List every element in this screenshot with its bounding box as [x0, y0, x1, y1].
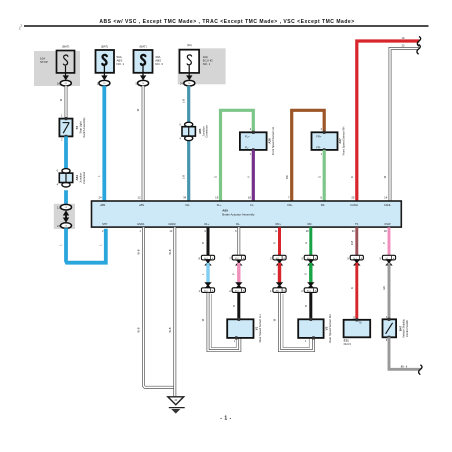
- svg-text:+BS: +BS: [139, 203, 144, 207]
- svg-text:Connector: Connector: [82, 171, 86, 184]
- wire RR+ white U to sensor: [280, 293, 314, 351]
- fuse F1 panel: [34, 51, 80, 86]
- header rule: [24, 25, 429, 27]
- arrow pair harness join: [63, 210, 69, 222]
- pin nub V2 bottom: [312, 336, 315, 339]
- pin nub A27 top: [323, 131, 326, 134]
- connector oval 21: [61, 223, 72, 229]
- svg-text:Connector: Connector: [205, 125, 209, 138]
- svg-text:B: B: [232, 305, 236, 307]
- wire CANL (W): [390, 49, 419, 202]
- svg-text:RL+: RL+: [204, 222, 209, 226]
- fuse F2 50A ABS NO.1: [96, 50, 115, 77]
- connector RR+ row2: [270, 288, 286, 293]
- pin nub S7 top: [65, 117, 68, 120]
- shield line RR: [283, 294, 309, 348]
- svg-text:Stop Light: Stop Light: [78, 121, 82, 133]
- ground symbol: [168, 397, 185, 414]
- svg-text:GR: GR: [382, 286, 386, 290]
- svg-text:NO. 1: NO. 1: [117, 62, 125, 66]
- svg-text:Junction: Junction: [201, 126, 205, 137]
- connector RL- row1: [232, 255, 245, 260]
- svg-text:CANL: CANL: [384, 203, 392, 207]
- stop light switch S7: [59, 119, 72, 137]
- header rule left break: [19, 24, 22, 30]
- wire RL+ upper: [207, 227, 210, 255]
- connector arrows CSW: [385, 259, 392, 265]
- svg-text:25: 25: [351, 195, 355, 199]
- connector RR- row2: [301, 288, 317, 293]
- svg-text:ABS <w/ VSC , Except TMC Made>: ABS <w/ VSC , Except TMC Made> , TRAC <E…: [99, 19, 354, 25]
- break symbol CSW: [419, 365, 422, 375]
- pin nub S7 bottom: [65, 135, 68, 138]
- svg-text:R-B: R-B: [350, 240, 354, 245]
- svg-text:A27: A27: [338, 138, 342, 144]
- svg-text:NO. 1: NO. 1: [203, 62, 211, 66]
- front speed sensor LH A26: [240, 132, 267, 150]
- connector arrows RL+ upper: [204, 259, 211, 265]
- connector arrows RL- lower: [235, 282, 242, 288]
- DLC3 connector E11: [344, 320, 371, 338]
- svg-text:B9 - 8: B9 - 8: [401, 365, 408, 368]
- svg-text:W-B: W-B: [137, 249, 141, 254]
- arrow below F3: [140, 75, 146, 80]
- svg-text:FL+: FL+: [245, 134, 250, 138]
- wire TS lower (R): [355, 263, 358, 320]
- svg-text:B: B: [304, 305, 308, 307]
- svg-text:TS: TS: [355, 222, 359, 226]
- svg-text:R: R: [350, 176, 354, 178]
- wire RL- middle: [237, 263, 240, 285]
- svg-text:STOP: STOP: [40, 60, 48, 64]
- wire FL+ to sensor (G): [221, 110, 254, 201]
- svg-text:NO. 3: NO. 3: [155, 62, 163, 66]
- svg-text:FL-: FL-: [250, 203, 254, 207]
- svg-text:W-B: W-B: [168, 249, 172, 254]
- svg-text:STP: STP: [102, 222, 107, 226]
- wire fuse F1 to stop light switch (W): [65, 86, 68, 119]
- svg-text:L-B: L-B: [182, 175, 186, 179]
- svg-text:24: 24: [180, 81, 184, 85]
- svg-text:14: 14: [384, 195, 388, 199]
- connector oval 1G below F3: [138, 80, 149, 86]
- wire TS upper (R-B): [355, 227, 358, 255]
- break symbol CANL: [417, 44, 420, 54]
- front speed sensor RH A27: [312, 132, 338, 150]
- wire STP U-shape (L): [66, 228, 106, 262]
- arrow below F2: [101, 75, 107, 80]
- pin nub A26 top: [252, 131, 255, 134]
- wire RR- upper: [309, 227, 312, 255]
- svg-text:Front Speed Sensor RH: Front Speed Sensor RH: [342, 127, 346, 156]
- svg-text:FR+: FR+: [316, 134, 322, 138]
- svg-text:(IG): (IG): [187, 43, 192, 47]
- fuse F3 30A ABS NO.3: [134, 50, 153, 77]
- svg-text:Rear Speed Sensor LH: Rear Speed Sensor LH: [258, 315, 262, 343]
- wire CSW upper (P): [388, 227, 391, 255]
- svg-text:12: 12: [137, 195, 141, 199]
- svg-text:W-B: W-B: [137, 327, 141, 332]
- svg-text:Brake Actuator Assembly: Brake Actuator Assembly: [222, 213, 255, 217]
- connector arrows RR- upper: [307, 259, 314, 265]
- connector RR- row1: [301, 255, 317, 260]
- svg-text:FL+: FL+: [217, 203, 222, 207]
- svg-text:TS: TS: [358, 322, 362, 325]
- svg-text:A64: A64: [75, 175, 79, 181]
- vehicle stability control switch B47: [383, 319, 397, 337]
- svg-text:B47: B47: [398, 325, 402, 331]
- brake actuator assembly A65 box: [92, 201, 402, 227]
- connector arrows RL+ lower: [204, 282, 211, 288]
- svg-text:(BAT): (BAT): [101, 45, 108, 49]
- svg-text:RL-: RL-: [236, 222, 240, 226]
- svg-text:BR: BR: [285, 175, 289, 179]
- wire RR+ middle: [278, 263, 281, 285]
- connector oval 1C below F1: [60, 80, 71, 86]
- wire A64 to connector 12: [64, 190, 68, 204]
- wire RL- upper (W): [237, 227, 240, 255]
- wire RR- middle: [309, 263, 312, 285]
- svg-text:R: R: [272, 273, 276, 275]
- svg-text:W-B: W-B: [168, 327, 172, 332]
- wire FR- (G): [323, 150, 326, 201]
- svg-text:24: 24: [98, 195, 102, 199]
- pin nub B47 bottom: [388, 336, 391, 339]
- connector RL+ row1: [198, 255, 214, 260]
- svg-text:G: G: [214, 176, 218, 178]
- wire RL+ white U to sensor: [208, 293, 240, 351]
- wire RL- lower (B): [237, 293, 240, 320]
- svg-text:19: 19: [215, 195, 219, 199]
- svg-text:B: B: [201, 242, 205, 244]
- wire CSW lower to break: [389, 337, 421, 369]
- connector RR+ row1: [270, 255, 286, 260]
- svg-text:R: R: [273, 242, 277, 244]
- rear speed sensor LH V1: [227, 319, 253, 338]
- wire F4 to IG1 (L-B): [187, 86, 190, 201]
- connector RL- row1: [229, 255, 245, 260]
- svg-text:G: G: [304, 273, 308, 275]
- break symbol CANH: [417, 36, 420, 46]
- svg-text:G: G: [317, 176, 321, 178]
- wire CSW middle (GR): [388, 263, 391, 320]
- svg-text:- 1 -: - 1 -: [220, 416, 231, 422]
- fuse F4 10A ECU-IG NO.1: [180, 50, 200, 78]
- svg-text:DLC3: DLC3: [344, 342, 352, 346]
- svg-text:A26: A26: [268, 138, 272, 144]
- svg-text:V: V: [246, 176, 250, 178]
- svg-text:V2: V2: [324, 326, 328, 330]
- svg-text:CANH: CANH: [350, 203, 358, 207]
- pin nub V2 top: [310, 318, 313, 321]
- fuse F1 10A STOP: [57, 51, 75, 78]
- svg-text:Vehicle Stability: Vehicle Stability: [402, 318, 406, 337]
- svg-text:P: P: [382, 242, 386, 244]
- junction connector A64: [57, 169, 73, 187]
- shield line RL: [211, 294, 236, 348]
- pin nub A27 bottom: [323, 148, 326, 151]
- svg-text:Front Speed Sensor LH: Front Speed Sensor LH: [271, 127, 275, 155]
- wire GND2 (W-B): [173, 227, 176, 396]
- svg-text:Control Switch: Control Switch: [405, 319, 409, 337]
- arrow below F1: [63, 75, 69, 80]
- wire FR+ to sensor (BR): [292, 110, 325, 201]
- svg-text:Rear Speed Sensor RH: Rear Speed Sensor RH: [328, 314, 332, 342]
- svg-text:Junction: Junction: [79, 172, 83, 183]
- svg-text:L-B: L-B: [182, 99, 186, 103]
- pin nub V1 bottom: [235, 336, 238, 339]
- wire F2 to +BM (L): [102, 86, 106, 201]
- connector RL+ row2: [198, 288, 214, 293]
- pin nub E11: [356, 318, 359, 321]
- svg-text:(BAT): (BAT): [140, 45, 147, 49]
- wire S7 to junction connector A64 (L): [64, 136, 68, 168]
- connector oval 1E below F2: [99, 80, 110, 86]
- connector CSW: [379, 255, 395, 260]
- svg-text:CSW: CSW: [384, 222, 391, 226]
- svg-text:+BM: +BM: [100, 203, 106, 207]
- connector oval 12: [61, 204, 72, 210]
- svg-text:IG1: IG1: [185, 203, 190, 207]
- connector arrows RR- lower: [307, 282, 314, 288]
- connector arrows RL- upper: [235, 259, 242, 265]
- connector arrows RR+ lower: [276, 282, 283, 288]
- connector RL- row2: [229, 288, 245, 293]
- rear speed sensor RH V2: [298, 319, 323, 338]
- wire RL+ middle: [206, 263, 209, 285]
- svg-text:FR-: FR-: [321, 203, 326, 207]
- wire F3 to +BS (W): [142, 86, 145, 201]
- connector RL- row2: [232, 288, 245, 293]
- wire FL- (V): [252, 150, 255, 201]
- wire RR- lower: [309, 293, 312, 320]
- connector oval 1K below F4: [184, 80, 195, 86]
- svg-text:RR-: RR-: [308, 222, 313, 226]
- connector arrows TS: [353, 259, 360, 265]
- arrow below F4: [186, 75, 192, 80]
- wire CANH (R): [357, 41, 420, 201]
- connector panel IH: [54, 204, 75, 229]
- connector TS: [347, 255, 363, 260]
- svg-text:GND1: GND1: [137, 222, 145, 226]
- svg-text:GND2: GND2: [168, 222, 176, 226]
- svg-text:V1: V1: [255, 326, 259, 330]
- svg-text:RR+: RR+: [276, 222, 282, 226]
- wire GND1 (W-B): [144, 227, 175, 387]
- svg-text:Switch Assembly: Switch Assembly: [82, 117, 86, 138]
- pin nub B47 top: [388, 318, 391, 321]
- pin nub A26 bottom: [252, 148, 255, 151]
- svg-text:FR+: FR+: [288, 203, 294, 207]
- svg-text:(BAT): (BAT): [62, 45, 69, 49]
- svg-text:P: P: [232, 273, 236, 275]
- wire RL- upper: [237, 227, 240, 255]
- pin nub V1 top: [238, 318, 241, 321]
- svg-text:18: 18: [248, 195, 252, 199]
- svg-text:S7: S7: [75, 125, 79, 129]
- fuse F4 panel: [178, 48, 226, 84]
- svg-text:FR-: FR-: [316, 145, 321, 149]
- svg-text:G: G: [304, 242, 308, 244]
- svg-text:A65: A65: [198, 128, 202, 134]
- svg-text:R: R: [350, 287, 354, 289]
- svg-text:FL-: FL-: [245, 145, 249, 149]
- junction connector A65: [179, 122, 195, 140]
- svg-text:34: 34: [183, 195, 187, 199]
- wire RR+ upper: [278, 227, 281, 255]
- connector arrows RR+ upper: [276, 259, 283, 265]
